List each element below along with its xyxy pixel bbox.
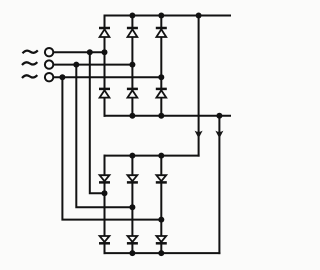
wire branch 2 lower vertical <box>131 156 133 254</box>
wire branch 2 upper vertical <box>131 16 133 116</box>
junction node lower DC bus / branch 3 <box>158 113 164 119</box>
wire lower bridge bottom bus <box>105 252 220 254</box>
junction node lower DC bus / negative link <box>216 113 222 119</box>
diode D8 <box>127 175 138 182</box>
wire top DC bus <box>105 15 231 17</box>
junction node phase 2 / branch 2 <box>129 62 135 68</box>
terminal AC phase 2 <box>45 60 53 68</box>
junction node phase 2 drop <box>73 62 79 68</box>
diode D1 <box>99 28 110 37</box>
terminal AC phase 3 <box>45 73 53 81</box>
diode D3 <box>156 28 167 37</box>
junction node top bus / positive link <box>196 13 202 19</box>
wire phase 2 drop to lower bridge <box>76 65 132 208</box>
diode D11 <box>127 236 138 243</box>
junction node branch 3 midpoint <box>158 217 164 223</box>
wire branch 1 upper vertical <box>104 16 106 116</box>
junction node phase 1 / branch 1 <box>102 49 108 55</box>
wire branch 3 upper vertical <box>160 16 162 116</box>
wire phase 3 drop to lower bridge <box>62 77 161 219</box>
arrow current direction positive link <box>195 131 203 139</box>
junction node top bus / branch 2 <box>129 13 135 19</box>
junction node phase 1 drop <box>87 49 93 55</box>
junction node bottom bus / branch 3 <box>158 250 164 256</box>
diode D4 <box>99 89 110 98</box>
label AC source tilde 3 <box>22 75 37 78</box>
wire right positive link vertical <box>198 16 200 156</box>
junction node lower top bus / branch 2 <box>129 153 135 159</box>
diode D6 <box>156 89 167 98</box>
diode D7 <box>99 175 110 182</box>
wire lower bridge top bus <box>105 155 199 157</box>
label AC source tilde 2 <box>22 62 37 65</box>
wire right negative link vertical <box>218 116 220 253</box>
wire AC phase line 3 <box>53 76 161 78</box>
wire AC phase line 2 <box>53 64 132 66</box>
diode D10 <box>99 236 110 243</box>
terminal AC phase 1 <box>45 48 53 56</box>
wire branch 1 lower vertical <box>104 156 106 254</box>
junction node phase 3 drop <box>59 74 65 80</box>
junction node branch 2 midpoint <box>129 204 135 210</box>
junction node top bus / branch 3 <box>158 13 164 19</box>
diode D12 <box>156 236 167 243</box>
wire phase 1 drop to lower bridge <box>90 52 105 193</box>
wire AC phase line 1 <box>53 51 105 53</box>
label AC source tilde 1 <box>23 50 38 53</box>
diode D5 <box>127 89 138 98</box>
diode D9 <box>156 175 167 182</box>
junction node lower DC bus / branch 2 <box>129 113 135 119</box>
junction node bottom bus / branch 2 <box>129 250 135 256</box>
junction node phase 3 / branch 3 <box>158 74 164 80</box>
wire upper lower DC bus <box>105 115 231 117</box>
junction node branch 1 midpoint <box>102 190 108 196</box>
arrow current direction negative link <box>215 131 223 139</box>
junction node lower top bus / branch 3 <box>158 153 164 159</box>
wire branch 3 lower vertical <box>160 156 162 254</box>
diode D2 <box>127 28 138 37</box>
